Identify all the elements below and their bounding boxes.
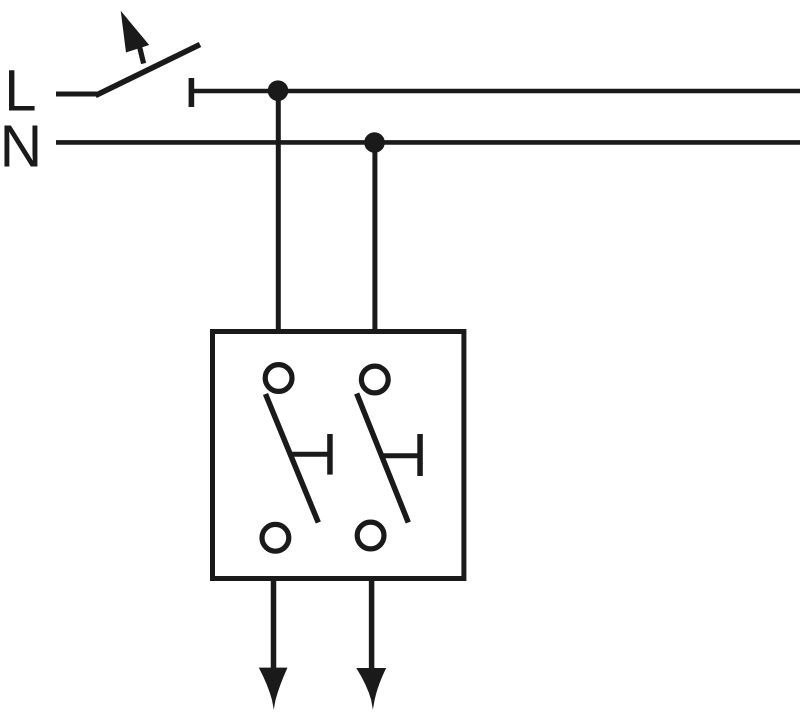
actuator T-bar left: [291, 452, 329, 457]
terminal circle bottom-left: [262, 524, 289, 551]
svg-text:N: N: [0, 114, 42, 180]
terminal circle top-right: [361, 366, 388, 393]
terminal circle bottom-right: [357, 522, 384, 549]
switch S1 blade: [96, 45, 201, 96]
switch S1 manual-actuation arrow: [121, 11, 150, 53]
switch contact blade right: [357, 394, 409, 523]
actuator T-bar right: [381, 453, 418, 458]
wire L bus: [194, 89, 800, 94]
arrow head left: [259, 668, 288, 710]
wire N bus: [56, 140, 800, 145]
wire L stub: [56, 92, 97, 97]
wire drop from L to box: [276, 91, 281, 329]
wire drop from N to box: [372, 142, 377, 329]
wire output left: [271, 579, 277, 670]
wire output right: [369, 579, 375, 670]
junction node on L: [268, 80, 289, 101]
switch S1 fixed contact bar: [189, 78, 195, 107]
switch contact blade left: [266, 394, 319, 523]
junction node on N: [364, 132, 385, 153]
pushbutton unit box: [213, 332, 464, 579]
arrow head right: [356, 668, 386, 710]
terminal circle top-left: [265, 365, 292, 392]
